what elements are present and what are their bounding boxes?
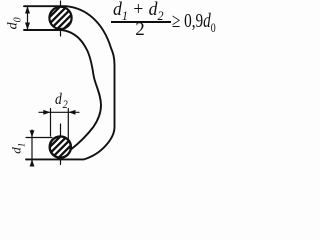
centerline top circle: [60, 1, 62, 36]
label d0 (rotated): [7, 10, 24, 36]
fraction bar: [111, 21, 171, 23]
denominator 2: [135, 20, 145, 39]
dimension d1 line: [31, 130, 33, 164]
wire outer outline: [24, 6, 115, 159]
label d2: [55, 92, 68, 110]
d1 bottom arrow (up, outside): [30, 159, 35, 166]
bottom circle cross-section d1: [50, 136, 71, 157]
d0 bottom arrow (down): [25, 23, 30, 31]
d0 top arrow (up): [25, 6, 30, 14]
drawing of bent rod link: [0, 0, 230, 180]
d2 extension right: [67, 109, 69, 144]
d2 dimension line: [39, 111, 79, 113]
top circle cross-section d0: [49, 7, 71, 29]
label d1 (rotated): [10, 135, 27, 161]
formula numerator d1 + d2: [113, 0, 164, 21]
d1 extension top: [26, 137, 52, 139]
>= 0,9 d0: [172, 11, 216, 34]
arrows: [25, 6, 76, 167]
d1 top arrow (down, outside): [30, 130, 35, 137]
centerline bottom circle: [60, 124, 62, 165]
d2 right arrow (left, outside): [68, 110, 75, 115]
dimension d0 line: [27, 7, 29, 29]
wire inner outline: [24, 30, 101, 149]
d2 left arrow (right, outside): [43, 110, 50, 115]
d2 extension left: [50, 109, 52, 137]
